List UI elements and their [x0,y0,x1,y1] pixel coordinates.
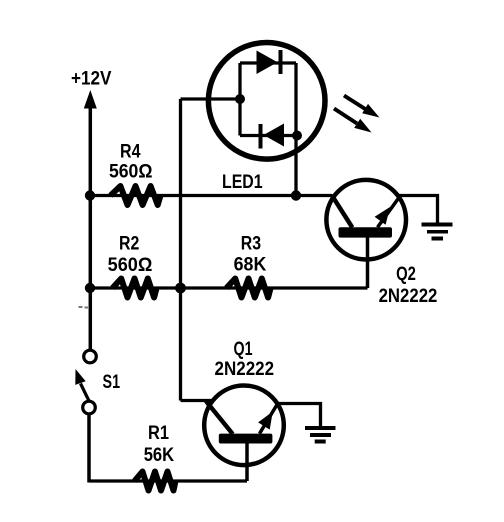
wire Q1 collector lead-in [181,399,214,402]
svg-text:56K: 56K [144,445,175,466]
wire left rail upper [89,105,93,351]
svg-text:R3: R3 [241,234,261,255]
scan artifact dashes [79,306,83,308]
light emission arrow lower head [354,119,371,133]
svg-text:LED1: LED1 [222,172,263,193]
switch S1 upper contact [84,350,97,363]
svg-text:R1: R1 [148,423,169,444]
resistor R4 [111,186,161,205]
transistor Q1 circle [204,386,284,466]
wire Q1 base stem [245,443,249,481]
svg-text:68K: 68K [234,255,267,276]
wire left rail lower [87,414,91,483]
junction node rail-row2 [85,283,95,293]
transistor Q1 base bar [219,434,273,444]
ground for Q2 bar2 [427,230,448,234]
LED LED1 circle [208,43,325,160]
wire bottom row R1 [89,479,247,482]
transistor Q2 emitter lead [378,199,399,228]
switch S1 lower contact [83,401,96,414]
transistor Q1 collector lead [206,401,233,434]
junction node row2 LED branch [175,283,186,294]
diode D lower (points left) [264,124,285,147]
junction node rail-row1 [85,190,95,200]
light emission arrow upper head [362,104,379,118]
diode D upper cathode bar [279,50,283,74]
resistor R1 [135,472,176,491]
ground for Q2 bar3 [432,237,444,241]
transistor Q2 circle [326,180,406,260]
svg-text:Q2: Q2 [396,264,416,285]
junction node LED left terminal [235,94,245,104]
switch S1 arm [81,384,90,403]
svg-text:2N2222: 2N2222 [379,286,438,307]
transistor Q2 base bar [339,227,393,237]
svg-text:+12V: +12V [71,69,112,90]
wire Q2 emitter to ground [399,196,438,225]
wire LED bridge bottom [240,134,296,137]
wire LED left lead [181,97,241,100]
light emission arrow upper shaft [344,96,366,110]
junction node row1 LED drop [291,190,301,200]
wire Q2 base stem [366,238,370,289]
wire LED right side down to row1 [294,63,297,196]
ground for Q1 bar1 [305,426,336,430]
ground for Q1 bar3 [315,440,326,444]
wire LED left branch vertical [179,99,182,401]
ground for Q1 bar2 [310,433,331,437]
transistor Q1 emitter lead [260,403,279,434]
svg-text:R2: R2 [119,234,139,255]
diode D upper (points right) [257,51,278,75]
wire row1 from rail to Q2 collector [90,194,332,197]
svg-text:R4: R4 [120,141,141,162]
+12V arrow head [84,90,97,109]
resistor R3 [227,279,271,298]
resistor R2 [113,279,157,298]
wire LED bridge top [240,61,296,64]
svg-text:Q1: Q1 [234,339,253,360]
svg-text:560Ω: 560Ω [109,162,153,183]
transistor Q2 collector lead [332,195,353,228]
wire Q1 emitter to ground [277,404,321,428]
svg-text:560Ω: 560Ω [108,255,153,276]
wire row2 from rail to Q2 base riser [90,286,368,289]
transistor Q1 emitter arrow [258,412,273,430]
light emission arrow lower shaft [334,109,357,124]
ground for Q2 bar1 [422,223,453,227]
junction node LED right terminal [292,131,302,141]
diode D lower cathode bar [259,124,263,149]
switch S1 arm arrow head [75,369,85,385]
svg-text:2N2222: 2N2222 [215,359,275,380]
svg-text:S1: S1 [103,372,121,393]
transistor Q2 emitter arrow [375,207,390,225]
wire LED bridge left side [238,63,241,136]
